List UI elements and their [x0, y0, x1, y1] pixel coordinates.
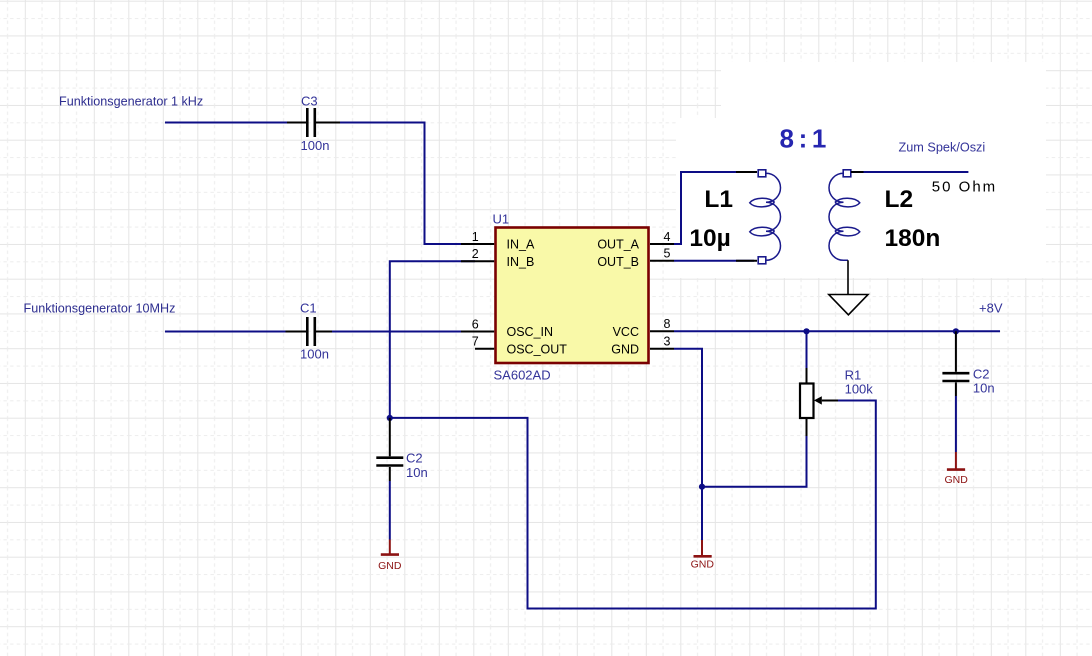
svg-text:VCC: VCC: [613, 325, 639, 339]
svg-text:2: 2: [472, 247, 479, 261]
pin 3 stub: [650, 348, 674, 350]
svg-text:OSC_OUT: OSC_OUT: [507, 342, 568, 356]
wiper arrow: [814, 396, 822, 404]
svg-text:GND: GND: [691, 559, 715, 571]
svg-text:Zum Spek/Oszi: Zum Spek/Oszi: [899, 141, 986, 155]
wire: lower loop from IN_B junction to wiper: [390, 401, 876, 609]
wire: C2 right to GND: [955, 396, 957, 452]
L1 bottom terminal square: [758, 257, 766, 264]
svg-text:10n: 10n: [973, 381, 995, 396]
svg-text:100n: 100n: [300, 346, 329, 361]
L1 top terminal square: [758, 170, 766, 177]
L2 top terminal square: [843, 170, 851, 177]
IC U1 SA602AD body: [496, 228, 649, 364]
white patch behind transformer area: [676, 118, 1046, 278]
svg-text:OUT_A: OUT_A: [597, 238, 639, 252]
svg-text:L2: L2: [885, 186, 914, 213]
capacitor C2 (left, 10n): [376, 418, 403, 481]
ground GND (right C2): [945, 452, 969, 486]
wire: C2 left to GND: [389, 481, 391, 540]
wire: junction to R1 bottom: [702, 436, 807, 487]
svg-text:Funktionsgenerator 1 kHz: Funktionsgenerator 1 kHz: [59, 95, 203, 109]
ground GND (left C2): [378, 540, 402, 573]
junction node rail/R1: [803, 328, 809, 334]
pin 5 stub: [650, 260, 674, 262]
wire: generator 1kHz to C3: [165, 122, 287, 124]
resistor (pot) R1: [800, 331, 838, 436]
svg-text:6: 6: [472, 317, 479, 331]
svg-text:7: 7: [472, 335, 479, 349]
pin 6 stub: [461, 331, 494, 333]
svg-text:100n: 100n: [301, 138, 330, 153]
wire: pin5 to L1 bottom: [674, 260, 754, 262]
svg-text:C1: C1: [300, 300, 317, 315]
wire: C3 to pin1 corner: [340, 123, 475, 245]
pin 8 stub: [650, 330, 674, 332]
svg-text:SA602AD: SA602AD: [494, 368, 551, 383]
svg-text:GND: GND: [945, 474, 969, 486]
ground triangle (L2): [829, 295, 868, 315]
wire: pin4 to L1 top: [674, 172, 754, 244]
wire: L2 to load: [851, 171, 864, 173]
inductor L1 coil: [750, 173, 781, 260]
svg-text:3: 3: [664, 335, 671, 349]
svg-text:10n: 10n: [406, 465, 428, 480]
svg-text:8 : 1: 8 : 1: [780, 123, 826, 153]
capacitor C3: [287, 108, 340, 137]
svg-text:R1: R1: [845, 368, 862, 383]
svg-text:OUT_B: OUT_B: [597, 255, 639, 269]
svg-text:C2: C2: [406, 450, 423, 465]
ground GND (pin3): [691, 540, 715, 571]
svg-text:U1: U1: [493, 212, 510, 227]
svg-text:OSC_IN: OSC_IN: [507, 325, 554, 339]
junction node rail/C2: [953, 328, 959, 334]
wire: L2 bottom to ground triangle: [847, 260, 849, 294]
svg-text:100k: 100k: [845, 382, 874, 397]
svg-text:10µ: 10µ: [689, 225, 730, 252]
svg-text:C3: C3: [301, 94, 318, 109]
wire: C1 to pin6: [332, 331, 475, 333]
junction node IN_B/C2: [387, 415, 393, 421]
svg-text:C2: C2: [973, 367, 990, 382]
svg-text:IN_A: IN_A: [507, 238, 535, 252]
inductor L2 coil: [829, 173, 860, 260]
svg-text:8: 8: [664, 317, 671, 331]
svg-text:5: 5: [664, 247, 671, 261]
svg-text:Funktionsgenerator 10MHz: Funktionsgenerator 10MHz: [24, 301, 176, 315]
svg-text:4: 4: [664, 230, 671, 244]
svg-text:GND: GND: [611, 342, 639, 356]
capacitor C1: [286, 317, 333, 346]
wire: pin3 GND net: [674, 349, 702, 540]
pin 4 stub: [650, 243, 674, 245]
pin 2 stub: [461, 260, 494, 262]
wire: pin8 VCC rail to +8V: [674, 330, 1000, 332]
svg-text:1: 1: [472, 230, 479, 244]
svg-text:50 Ohm: 50 Ohm: [932, 179, 997, 196]
capacitor C2 (right, 10n): [942, 331, 969, 396]
svg-text:IN_B: IN_B: [507, 255, 535, 269]
junction node pin3/R1: [699, 484, 705, 490]
wire: pin2 to IN_B vertical: [390, 261, 475, 418]
wire: generator 10MHz to C1: [165, 331, 286, 333]
svg-text:180n: 180n: [885, 225, 941, 252]
svg-text:+8V: +8V: [979, 301, 1003, 316]
svg-text:L1: L1: [704, 186, 733, 213]
pin 7 stub: [475, 348, 494, 350]
svg-text:GND: GND: [378, 560, 402, 572]
pin 1 stub: [461, 243, 494, 245]
